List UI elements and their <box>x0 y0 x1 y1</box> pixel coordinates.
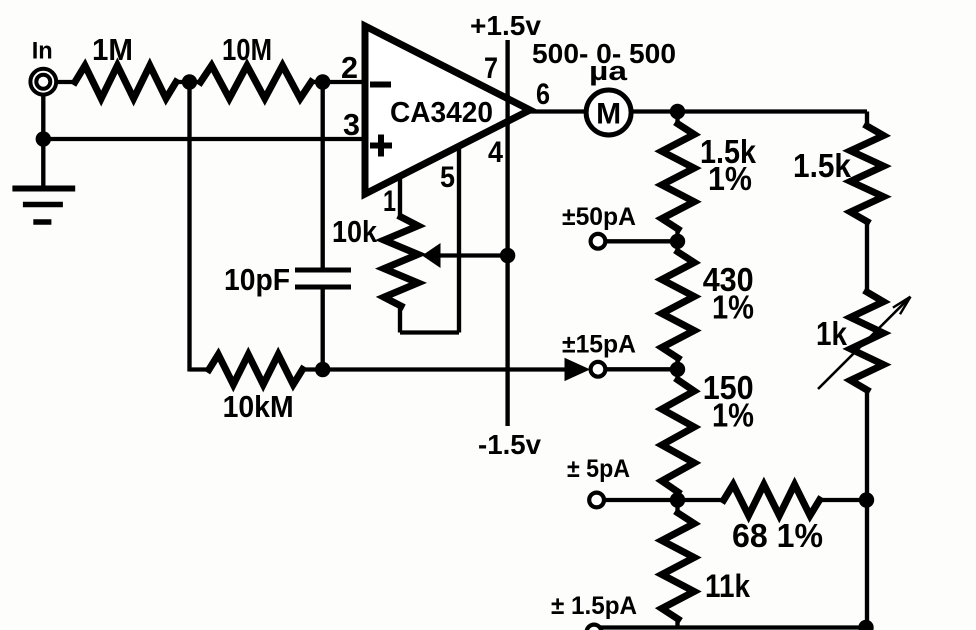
svg-text:10M: 10M <box>222 32 272 67</box>
svg-text:±50pA: ±50pA <box>562 203 636 231</box>
svg-text:1k: 1k <box>816 315 848 352</box>
svg-text:µa: µa <box>589 56 628 86</box>
svg-text:10kM: 10kM <box>223 389 294 424</box>
svg-text:11k: 11k <box>705 568 750 604</box>
svg-text:1%: 1% <box>712 289 754 326</box>
svg-text:4: 4 <box>488 136 503 169</box>
svg-text:CA3420: CA3420 <box>390 97 493 129</box>
svg-text:7: 7 <box>484 52 498 85</box>
svg-text:±15pA: ±15pA <box>562 331 636 359</box>
svg-text:1.5k: 1.5k <box>793 147 852 184</box>
svg-text:3: 3 <box>343 107 360 142</box>
svg-text:-1.5v: -1.5v <box>478 429 541 460</box>
svg-text:1M: 1M <box>92 32 133 67</box>
svg-text:2: 2 <box>341 50 358 85</box>
svg-text:10pF: 10pF <box>224 262 290 297</box>
svg-text:6: 6 <box>536 78 550 111</box>
svg-text:68 1%: 68 1% <box>732 517 823 554</box>
svg-text:+1.5v: +1.5v <box>470 10 541 41</box>
svg-text:± 1.5pA: ± 1.5pA <box>551 592 637 620</box>
svg-text:1: 1 <box>383 185 396 218</box>
svg-text:In: In <box>32 37 53 64</box>
svg-text:1%: 1% <box>708 160 752 197</box>
svg-text:M: M <box>596 98 621 131</box>
svg-text:5: 5 <box>440 161 455 194</box>
svg-text:1%: 1% <box>712 397 754 434</box>
svg-text:10k: 10k <box>332 214 378 249</box>
svg-text:± 5pA: ± 5pA <box>567 455 630 483</box>
